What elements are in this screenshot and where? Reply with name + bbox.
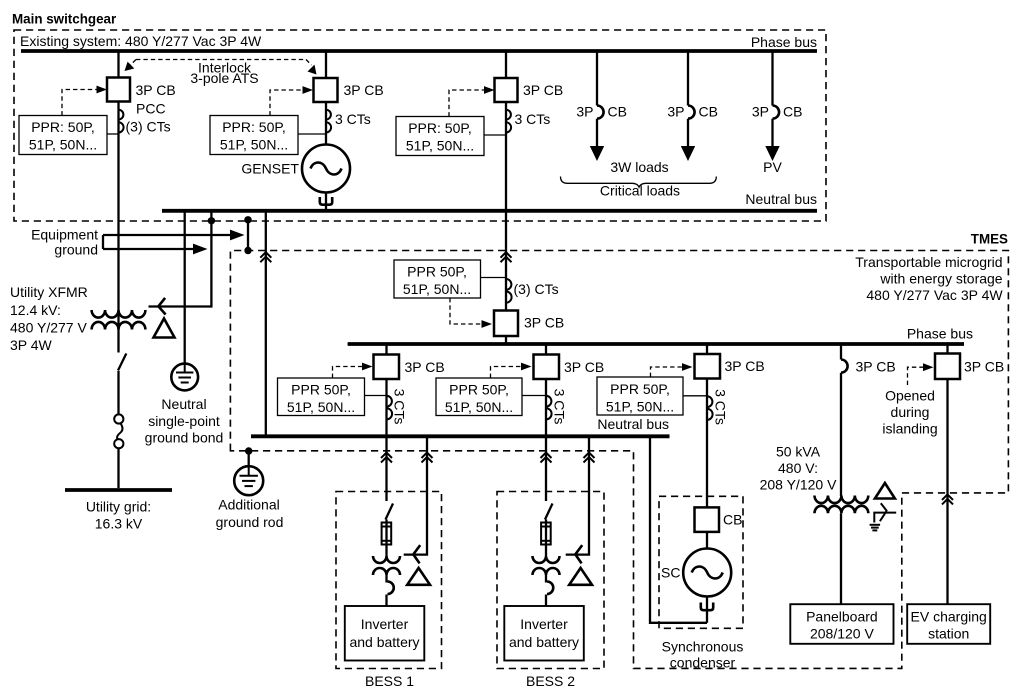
- svg-text:Existing system: 480 Y/277 Vac: Existing system: 480 Y/277 Vac 3P 4W: [20, 33, 262, 49]
- svg-text:208/120 V: 208/120 V: [810, 626, 874, 642]
- delta symbol (primary): [154, 319, 175, 338]
- junction dot on dashed line: [208, 217, 215, 224]
- CTs 3 (tie feeder): [506, 110, 511, 133]
- boundary chevron (EV feeder): [942, 494, 953, 504]
- svg-text:ground rod: ground rod: [216, 514, 284, 530]
- svg-text:Main switchgear: Main switchgear: [12, 12, 117, 27]
- svg-text:3P: 3P: [752, 104, 769, 120]
- disconnect blade (BESS1): [386, 504, 394, 520]
- wire: bus to CB1 (PCC feeder): [117, 51, 119, 78]
- wire: PPR to CT: [107, 133, 119, 135]
- svg-text:51P, 50N...: 51P, 50N...: [403, 281, 471, 297]
- svg-text:480 V:: 480 V:: [778, 460, 818, 476]
- wire: EV CB to EV charging station: [946, 379, 948, 604]
- svg-text:PPR: 50P,: PPR: 50P,: [31, 119, 95, 135]
- svg-text:480 Y/277 Vac 3P 4W: 480 Y/277 Vac 3P 4W: [866, 287, 1003, 303]
- svg-text:single-point: single-point: [148, 413, 220, 429]
- SC ground cup: [706, 597, 708, 623]
- svg-text:PPR 50P,: PPR 50P,: [610, 381, 670, 397]
- wire: transformer to coupling arc (BESS1): [385, 575, 387, 583]
- circuit breaker 3P CB (BESS2): [534, 355, 560, 380]
- TMES enclosure boundary (dashed polyline): [230, 251, 1008, 669]
- svg-text:CB: CB: [608, 104, 627, 120]
- 50kVA transformer secondary winding: [815, 506, 869, 514]
- dashed control arrow: PPR to incomer CB: [450, 298, 481, 324]
- circuit breaker 3P CB (BESS1): [374, 355, 400, 380]
- circuit breaker 3P CB (EV, opened during islanding): [935, 354, 960, 380]
- disconnect blade (BESS2): [545, 504, 553, 520]
- svg-text:BESS 1: BESS 1: [365, 673, 414, 689]
- svg-text:51P, 50N...: 51P, 50N...: [445, 399, 513, 415]
- svg-text:PPR 50P,: PPR 50P,: [407, 264, 467, 280]
- svg-text:Phase bus: Phase bus: [907, 326, 973, 342]
- svg-text:51P, 50N...: 51P, 50N...: [29, 137, 97, 153]
- wire: bus to CB3 (TMES tie feeder): [505, 51, 507, 78]
- wire: PPR to CT (SC): [683, 395, 707, 397]
- wire: TMES bus to BESS2 CB: [545, 344, 547, 355]
- wire: TMES bus to 50kVA breaker: [840, 344, 842, 360]
- utility grid bar: [65, 488, 172, 492]
- TMES neutral bus: [251, 434, 670, 438]
- relay PPR box (BESS2): [436, 378, 522, 416]
- wire: CB3 down into TMES: [505, 102, 507, 311]
- svg-text:Phase bus: Phase bus: [751, 34, 817, 50]
- ground electrode circle (neutral single-point ground bond): [184, 211, 186, 364]
- additional ground rod drop: [248, 451, 250, 467]
- svg-text:3P: 3P: [667, 104, 684, 120]
- SC enclosure (dashed): [659, 496, 743, 628]
- CTs 3 (SC feeder): [707, 396, 713, 420]
- svg-text:12.4 kV:: 12.4 kV:: [10, 302, 61, 318]
- arrowhead load 1: [590, 146, 604, 161]
- svg-text:Synchronous: Synchronous: [662, 639, 744, 655]
- dashed control arrow: PPR to BESS1 CB: [333, 367, 363, 379]
- svg-text:3 CTs: 3 CTs: [335, 111, 371, 127]
- wire: TMES bus to SC CB: [706, 344, 708, 354]
- 50kVA transformer primary winding: [815, 496, 869, 504]
- synchronous condenser machine SC: [683, 549, 731, 597]
- svg-text:Neutral bus: Neutral bus: [745, 191, 817, 207]
- svg-text:Neutral: Neutral: [161, 396, 206, 412]
- svg-text:PPR 50P,: PPR 50P,: [449, 382, 509, 398]
- circuit breaker CB (synchronous condenser): [695, 507, 720, 532]
- svg-text:3P CB: 3P CB: [564, 359, 604, 375]
- open arrow head on XFMR neutral hook: [158, 298, 165, 315]
- svg-text:PPR: 50P,: PPR: 50P,: [222, 119, 286, 135]
- wire: PPR to CT (BESS1): [365, 395, 387, 397]
- svg-text:TMES: TMES: [971, 232, 1008, 247]
- wire: PPR to CT (GENSET): [298, 133, 326, 135]
- BESS2 transformer primary winding: [533, 556, 560, 563]
- wire: PPR to CT (BESS2): [522, 395, 546, 397]
- svg-text:SC: SC: [661, 565, 680, 581]
- svg-text:3P 4W: 3P 4W: [10, 337, 53, 353]
- svg-text:BESS 2: BESS 2: [526, 673, 575, 689]
- breaker arc (load 1): [597, 106, 604, 119]
- circuit breaker 3P CB (TMES incomer): [494, 311, 518, 337]
- svg-text:51P, 50N...: 51P, 50N...: [406, 138, 474, 154]
- wire: BESS2 CB down through CTs across neutral bus into BESS2: [545, 379, 547, 501]
- ground bond symbol (GENSET cup): [320, 197, 332, 205]
- junction dot (top of bond link): [244, 216, 251, 223]
- node: neutral-to-TMES bond link: [247, 220, 249, 251]
- wire below switch: [117, 371, 119, 414]
- BESS1 enclosure (dashed): [336, 492, 442, 669]
- svg-text:3-pole ATS: 3-pole ATS: [190, 70, 258, 86]
- neutral bus (main): [162, 209, 817, 213]
- svg-text:CB: CB: [723, 512, 742, 528]
- svg-text:3P CB: 3P CB: [964, 359, 1004, 375]
- cable termination circles: [114, 414, 123, 423]
- TMES phase bus: [348, 342, 964, 346]
- svg-text:with energy storage: with energy storage: [879, 271, 1002, 287]
- CTs (3) on PCC feeder: [119, 110, 124, 133]
- svg-text:EV charging: EV charging: [911, 609, 987, 625]
- boundary chevron (BESS1 neutral): [422, 453, 433, 463]
- svg-text:ground: ground: [54, 242, 98, 258]
- breaker arc (50kVA feeder): [841, 360, 848, 373]
- svg-text:3P CB: 3P CB: [405, 359, 445, 375]
- svg-text:3 CTs: 3 CTs: [392, 389, 408, 425]
- svg-text:GENSET: GENSET: [241, 161, 299, 177]
- wire: breaker to 50kVA transformer: [840, 373, 842, 496]
- relay PPR box (TMES incomer): [394, 260, 481, 298]
- phase bus (main): [21, 49, 817, 53]
- dashed control arrow: PPR to CB1: [62, 90, 98, 116]
- svg-text:(3) CTs: (3) CTs: [126, 119, 171, 135]
- boundary chevron (tie feeder into TMES): [501, 252, 512, 262]
- svg-text:condenser: condenser: [670, 655, 736, 671]
- breaker arc (PV): [773, 106, 780, 119]
- wire: blade to fuse to transformer (BESS2): [545, 520, 547, 557]
- neutral wire into BESS2 with hook arrow: [566, 436, 589, 554]
- dashed control arrow: PPR to CB3: [449, 90, 485, 117]
- inverter and battery box (BESS1): [345, 606, 425, 661]
- EV charging station box: [907, 604, 990, 644]
- svg-text:3P CB: 3P CB: [344, 82, 384, 98]
- svg-text:CB: CB: [783, 104, 802, 120]
- dashed control arrow: PPR to CB2: [270, 90, 304, 116]
- arrowhead: interlock to CB2: [308, 65, 317, 75]
- CTs 3 (BESS1): [387, 396, 393, 420]
- wire: arc to inverter (BESS2): [545, 595, 547, 607]
- junction dot on TMES dashed edge: [245, 447, 252, 454]
- CTs 3 (BESS2): [546, 396, 552, 420]
- junction dot (bottom of bond link on TMES edge): [244, 247, 251, 254]
- load feeder 3 wire (PV): [771, 51, 773, 106]
- BESS1 transformer primary winding: [373, 556, 400, 563]
- CTs (3) on incomer: [506, 279, 512, 303]
- wire: GENSET to neutral bus: [325, 193, 327, 210]
- wire: BESS1 CB down through CTs across neutral bus into BESS1: [385, 379, 387, 501]
- svg-text:Equipment: Equipment: [31, 227, 98, 243]
- coupling arc (BESS2): [547, 582, 553, 595]
- neutral wire into BESS1 with hook arrow: [404, 436, 427, 554]
- svg-text:51P, 50N...: 51P, 50N...: [287, 399, 355, 415]
- svg-text:ground bond: ground bond: [145, 430, 224, 446]
- dashed control arrow: PPR to BESS2 CB: [491, 367, 522, 379]
- svg-text:and battery: and battery: [349, 634, 419, 650]
- boundary chevron (BESS2 neutral): [584, 453, 595, 463]
- svg-text:51P, 50N...: 51P, 50N...: [220, 137, 288, 153]
- svg-text:Inverter: Inverter: [520, 616, 568, 632]
- relay PPR box (tie feeder): [396, 117, 484, 156]
- load feeder 1 wire: [596, 51, 598, 106]
- BESS2 enclosure (dashed): [497, 492, 604, 669]
- relay PPR box (PCC): [19, 116, 107, 155]
- svg-text:during: during: [891, 404, 930, 420]
- svg-text:3 CTs: 3 CTs: [552, 389, 568, 425]
- BESS1 transformer secondary winding: [373, 568, 400, 575]
- relay PPR box (BESS1): [278, 378, 365, 416]
- equipment ground arrow 2: [103, 248, 196, 250]
- circuit breaker 3P CB (SC feeder): [695, 354, 721, 379]
- dashed control arrow: opened during islanding: [908, 367, 925, 385]
- equipment ground arrow 1: [103, 234, 233, 236]
- svg-text:480 Y/277 V: 480 Y/277 V: [10, 320, 87, 336]
- svg-text:PPR: 50P,: PPR: 50P,: [408, 120, 472, 136]
- svg-text:3W loads: 3W loads: [610, 159, 668, 175]
- svg-text:Utility grid:: Utility grid:: [86, 499, 151, 515]
- wire to utility grid: [117, 448, 119, 488]
- svg-text:islanding: islanding: [882, 421, 937, 437]
- svg-text:Neutral bus: Neutral bus: [597, 416, 669, 432]
- svg-text:208 Y/120 V: 208 Y/120 V: [760, 477, 837, 493]
- svg-text:CB: CB: [699, 104, 718, 120]
- svg-text:50 kVA: 50 kVA: [776, 444, 821, 460]
- arrowhead: interlock to CB1: [125, 62, 135, 71]
- brace: critical loads: [561, 177, 717, 188]
- breaker arc (load 2): [688, 106, 695, 119]
- svg-text:3 CTs: 3 CTs: [713, 389, 729, 425]
- wire: main neutral bus down to TMES neutral bus: [265, 211, 267, 435]
- svg-text:Utility XFMR: Utility XFMR: [10, 284, 88, 300]
- wire: TMES bus to EV CB: [946, 344, 948, 354]
- CTs 3 (GENSET feeder): [326, 110, 331, 133]
- load feeder 2 wire: [687, 51, 689, 106]
- wire: neutral bond drop (to XFMR neutral hook): [149, 211, 212, 307]
- svg-text:Opened: Opened: [885, 388, 935, 404]
- arrowhead load 2: [681, 146, 695, 161]
- equipment ground bracket: [102, 235, 104, 249]
- svg-text:station: station: [928, 626, 969, 642]
- interlock dashed line (3-pole ATS): [136, 59, 306, 61]
- wire: 50kVA transformer to panelboard: [840, 513, 842, 604]
- boundary chevron (neutral link into TMES): [260, 252, 271, 262]
- boundary chevron (BESS2 phase): [541, 453, 552, 463]
- inverter and battery box (BESS2): [504, 606, 584, 661]
- utility transformer secondary winding: [92, 322, 146, 330]
- svg-text:Additional: Additional: [218, 497, 280, 513]
- arrowhead PV: [765, 146, 779, 161]
- grounded wye symbol (50kVA secondary): [874, 503, 896, 522]
- utility transformer primary winding: [92, 310, 146, 318]
- svg-text:Panelboard: Panelboard: [806, 609, 878, 625]
- svg-text:(3) CTs: (3) CTs: [514, 281, 559, 297]
- svg-text:PCC: PCC: [136, 101, 166, 117]
- svg-text:3P CB: 3P CB: [136, 82, 176, 98]
- boundary chevron (BESS1 phase): [381, 453, 392, 463]
- svg-text:Critical loads: Critical loads: [600, 183, 680, 199]
- fuse (BESS1): [382, 523, 392, 545]
- wire: TMES bus to BESS1 CB: [385, 344, 387, 355]
- svg-text:Transportable microgrid: Transportable microgrid: [855, 254, 1002, 270]
- coupling arc (BESS1): [388, 582, 394, 595]
- relay PPR box (SC): [597, 377, 683, 415]
- wire: blade to fuse to transformer (BESS1): [385, 520, 387, 557]
- delta symbol (50kVA primary): [875, 483, 895, 499]
- wire: SC ground to TMES neutral bus: [650, 436, 707, 623]
- wire: PPR to CT (incomer): [481, 277, 507, 279]
- main switchgear enclosure (dashed): [14, 30, 826, 221]
- svg-text:3P CB: 3P CB: [856, 358, 896, 374]
- wire: SC CB down to SC breaker: [706, 379, 708, 508]
- panelboard box: [790, 604, 893, 644]
- generator GENSET: [302, 145, 350, 193]
- svg-text:PPR 50P,: PPR 50P,: [291, 382, 351, 398]
- svg-text:51P, 50N...: 51P, 50N...: [606, 399, 674, 415]
- relay PPR box (GENSET): [210, 116, 298, 155]
- svg-text:3P: 3P: [576, 104, 593, 120]
- fuse (BESS2): [541, 523, 551, 545]
- wire: PPR to CT (tie): [484, 134, 506, 136]
- svg-text:Inverter: Inverter: [361, 616, 409, 632]
- dashed control arrow: PPR to SC CB: [651, 367, 683, 377]
- wire: transformer to coupling arc (BESS2): [545, 575, 547, 583]
- BESS2 transformer secondary winding: [533, 568, 560, 575]
- svg-text:16.3 kV: 16.3 kV: [95, 516, 143, 532]
- delta symbol (BESS1): [407, 568, 430, 585]
- wire: arc to inverter (BESS1): [385, 595, 387, 607]
- disconnect switch blade: [118, 354, 126, 371]
- svg-text:3P CB: 3P CB: [725, 358, 765, 374]
- wire: CB2 to GENSET: [325, 102, 327, 145]
- delta symbol (BESS2): [569, 568, 592, 585]
- wire: CB1 down through CTs to utility transformer: [117, 102, 119, 311]
- circuit breaker 3P CB (tie to TMES): [495, 78, 518, 102]
- wire: CB to SC machine: [706, 532, 708, 549]
- ground electrode circle (additional ground rod): [234, 466, 263, 495]
- svg-text:3P CB: 3P CB: [524, 315, 564, 331]
- circuit breaker 3P CB (GENSET): [314, 78, 338, 102]
- wire through transformer: [117, 310, 119, 353]
- wire: incomer CB to TMES phase bus: [505, 336, 507, 344]
- svg-text:PV: PV: [763, 159, 782, 175]
- circuit breaker 3P CB PCC: [107, 78, 130, 102]
- svg-text:3P CB: 3P CB: [523, 82, 563, 98]
- wire: bus to CB2 (GENSET feeder): [325, 51, 327, 78]
- svg-text:and battery: and battery: [509, 634, 579, 650]
- svg-text:3 CTs: 3 CTs: [515, 111, 551, 127]
